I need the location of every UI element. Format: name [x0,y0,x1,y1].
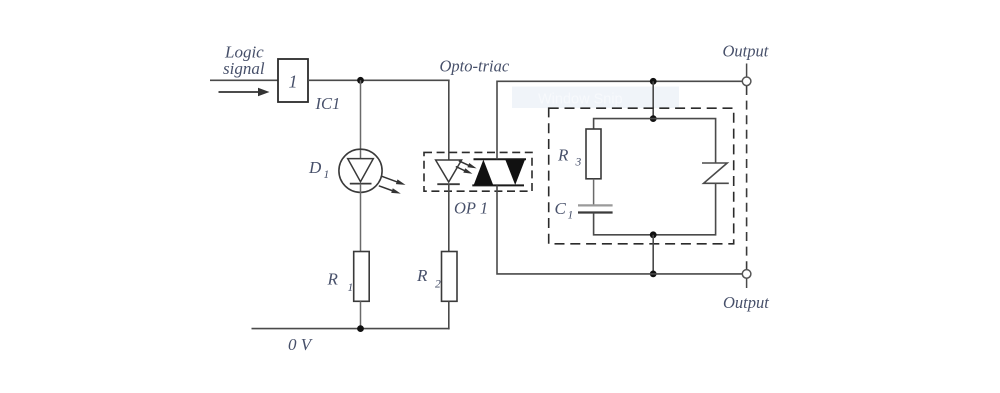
signal-direction arrow [219,88,270,97]
wire: snubber top rail [594,119,716,163]
svg-text:R: R [557,146,569,165]
svg-text:Output: Output [723,293,769,312]
wire: R2 to 0V rail [448,301,450,329]
wire: R3 to C1 [593,179,595,205]
wire: triac MT2 up to top rail and across to output [497,81,742,159]
svg-text:C: C [555,199,567,218]
svg-text:3: 3 [575,157,582,169]
label D1 [308,158,329,181]
wire: OP1 LED cathode to R2 [448,184,450,252]
label R1 [327,270,354,295]
svg-text:R: R [327,270,339,289]
varistor Z element [702,163,729,183]
resistor R3 [586,129,601,179]
svg-text:R: R [416,266,428,285]
wire: IC1 output to corner above OP1 [308,79,450,81]
OP1 triac [472,159,526,185]
svg-text:Output: Output [723,42,769,61]
junction: snubber bottom node [650,231,657,238]
0V rail wire [252,328,450,330]
junction: R1 on 0V rail [357,325,364,332]
label Logic signal [223,43,265,78]
svg-text:signal: signal [223,59,265,78]
junction: snubber top node [650,115,657,122]
svg-text:OP 1: OP 1 [454,199,488,218]
inverter IC1 [278,59,308,102]
svg-text:1: 1 [348,282,354,294]
opto-triac OP1 dashed outline [424,152,532,191]
wire: R1 to 0V rail [360,301,362,328]
svg-text:0 V: 0 V [288,335,314,354]
svg-text:Window Snip: Window Snip [538,92,623,108]
junction: node at D1 branch [357,77,364,84]
junction: top rail snubber tap [650,78,657,85]
svg-text:1: 1 [324,169,330,181]
terminal: bottom Output [742,270,751,288]
resistor R2 [442,252,458,302]
wire: corner down to OP1 LED anode [448,80,450,161]
dashed load line between outputs [746,86,748,269]
svg-text:2: 2 [435,279,441,291]
svg-text:IC1: IC1 [315,94,341,113]
wire: logic input to IC1 [210,79,278,81]
svg-text:D: D [308,158,322,177]
wire: junction down to D1 anode [360,80,362,158]
terminal: top Output [742,64,751,86]
snubber dashed box [549,108,734,244]
label C1 [555,199,574,222]
capacitor C1 [578,205,613,212]
wire: D1 cathode to R1 [360,184,362,252]
junction: bottom rail tap [650,271,657,278]
Window Snip overlay artifact [512,87,679,109]
resistor R1 [354,252,370,302]
wire: triac MT1 down and bottom rail to output [497,185,742,274]
wire: C1 to snubber bottom rail [594,213,654,235]
LED D1 [339,149,406,193]
OP1 LED emitter [436,160,477,184]
wire: snubber feed link [652,81,654,118]
svg-text:Opto-triac: Opto-triac [440,57,510,76]
label R2 [416,266,441,291]
wire: snubber bottom link down [652,235,654,274]
label R3 [557,146,582,169]
wire: varistor to snubber bottom rail [653,183,715,235]
svg-text:1: 1 [289,72,298,92]
svg-text:1: 1 [568,210,574,222]
